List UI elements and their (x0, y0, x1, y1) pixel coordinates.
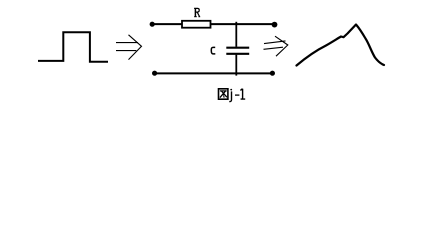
output waveform: exponential rise, spike and decay (297, 25, 385, 66)
wire: top-left node to resistor (152, 23, 182, 25)
wire: bottom return (155, 72, 273, 74)
arrow: circuit to output (double-line arrow) (264, 36, 288, 56)
resistor R (182, 21, 211, 28)
arrow: input to circuit (double-line arrow) (116, 35, 142, 60)
capacitor C (226, 22, 249, 76)
caption: j-1 (229, 89, 232, 102)
caption: 图 glyph (hand-drawn CJK 'figure') (219, 89, 228, 99)
label R (194, 8, 200, 16)
input waveform: square pulse (38, 32, 108, 62)
node: top-right terminal (272, 22, 278, 28)
node: bottom-left terminal (152, 71, 157, 76)
node: top-left terminal (150, 22, 155, 27)
label C (211, 47, 215, 54)
node: bottom-right terminal (270, 71, 275, 76)
wire: resistor to top-right node (211, 23, 275, 25)
